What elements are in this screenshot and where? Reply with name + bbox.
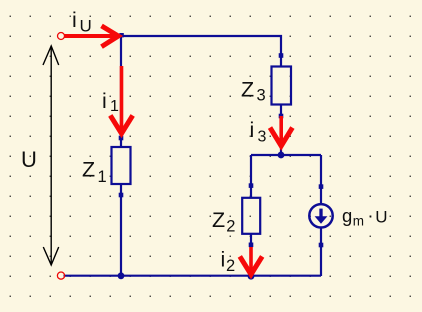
svg-text:U: U bbox=[80, 17, 92, 36]
svg-text:3: 3 bbox=[257, 87, 266, 105]
svg-text:i: i bbox=[250, 118, 255, 142]
svg-text:Z: Z bbox=[241, 78, 254, 102]
svg-text:·: · bbox=[368, 206, 374, 226]
svg-text:i: i bbox=[102, 89, 107, 113]
svg-text:2: 2 bbox=[226, 257, 235, 275]
svg-text:U: U bbox=[21, 147, 37, 172]
svg-text:i: i bbox=[221, 248, 226, 272]
svg-text:2: 2 bbox=[226, 218, 235, 236]
svg-text:i: i bbox=[72, 8, 77, 32]
svg-text:1: 1 bbox=[98, 168, 107, 186]
svg-text:g: g bbox=[342, 205, 352, 226]
svg-text:Z: Z bbox=[82, 158, 95, 182]
svg-text:Z: Z bbox=[212, 208, 225, 232]
svg-text:m: m bbox=[353, 214, 364, 229]
svg-text:U: U bbox=[375, 207, 387, 226]
svg-text:3: 3 bbox=[258, 129, 267, 146]
svg-text:1: 1 bbox=[110, 98, 119, 115]
